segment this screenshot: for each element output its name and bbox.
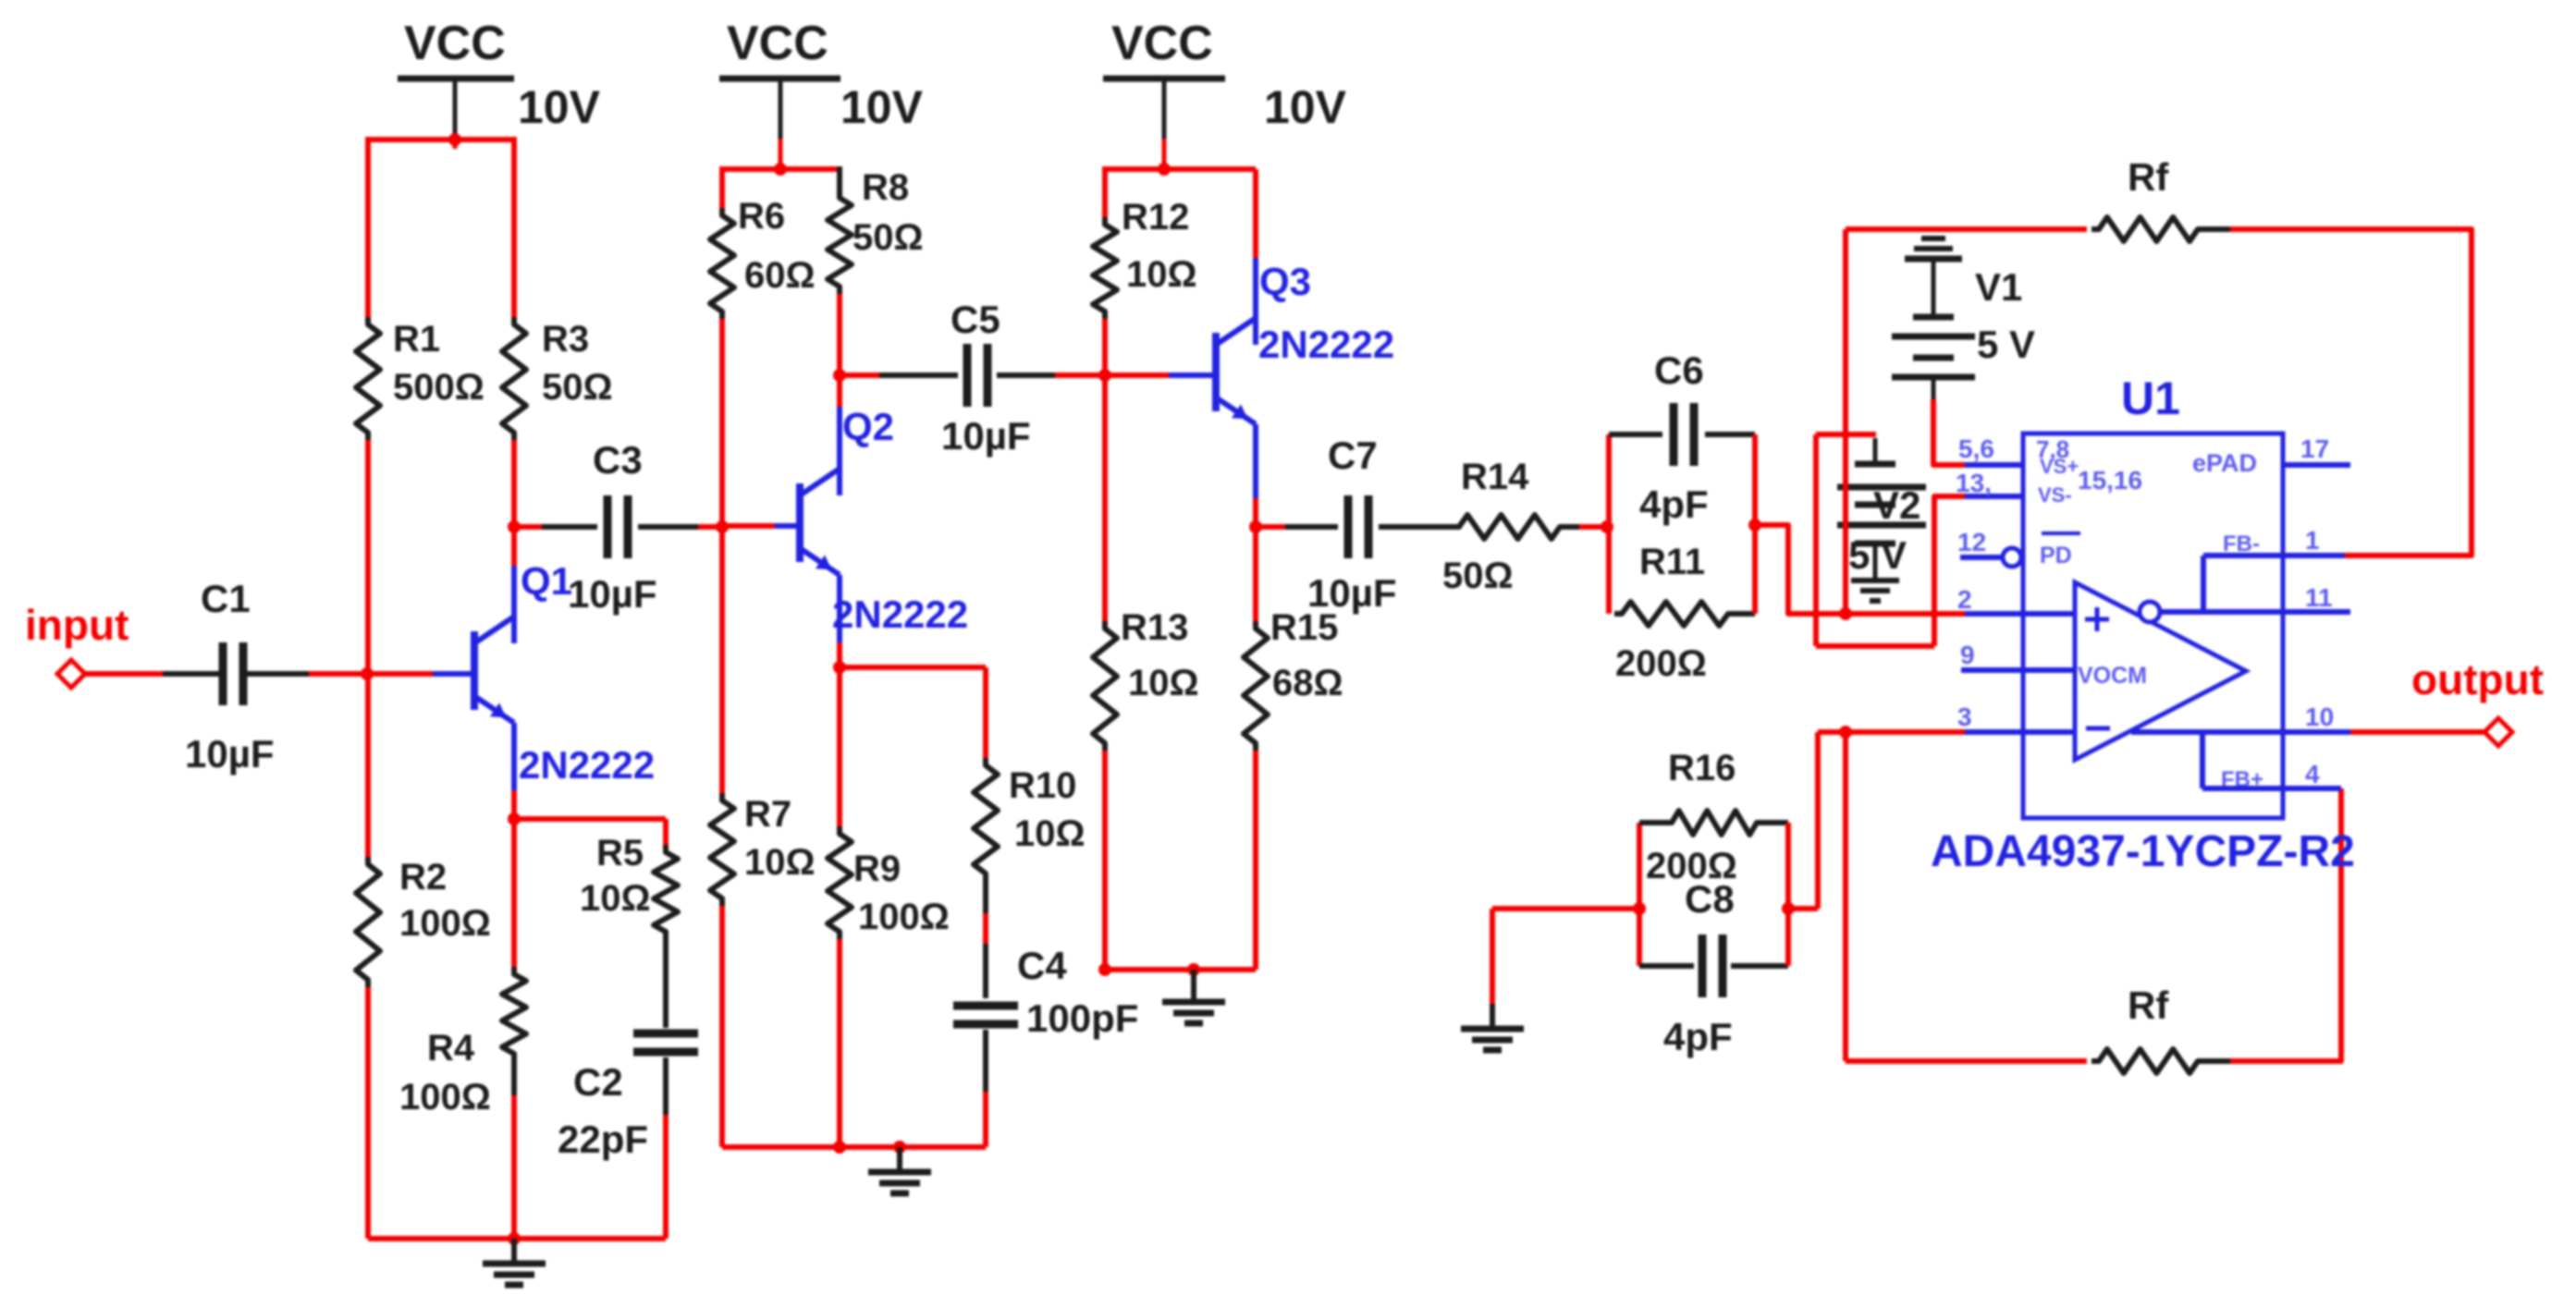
svg-text:R13: R13 <box>1121 607 1188 648</box>
wire R5 top lead <box>663 819 669 845</box>
svg-text:10µF: 10µF <box>941 414 1031 458</box>
svg-text:R2: R2 <box>399 857 447 898</box>
ground stage1 <box>483 1239 546 1285</box>
wire R14 output lead <box>1579 524 1609 530</box>
wire block output jog <box>1755 525 1846 614</box>
svg-text:2N2222: 2N2222 <box>832 592 968 636</box>
capacitor C3 <box>514 495 698 558</box>
wire U1 pin 11 output bubble <box>2160 609 2350 615</box>
wire V1 to pin 5,6 <box>1933 399 1965 465</box>
svg-text:R9: R9 <box>853 849 901 889</box>
wire R5 to C2 lead <box>663 939 669 1028</box>
svg-text:C2: C2 <box>573 1060 623 1104</box>
svg-text:input: input <box>25 601 129 649</box>
node block output junction <box>1748 519 1761 531</box>
svg-text:100pF: 100pF <box>1026 996 1138 1040</box>
transistor Q2 base bar <box>796 483 803 562</box>
transistor Q1 base bar <box>471 631 478 710</box>
ground stage2 <box>868 1147 931 1193</box>
svg-text:10Ω: 10Ω <box>1014 813 1086 854</box>
wire U1 pin 17 ePAD <box>2283 462 2350 468</box>
capacitor C1 <box>163 642 309 705</box>
wire block to pin3 vertical <box>1788 906 1818 911</box>
wire Rf bottom rail left <box>1846 1058 2087 1064</box>
node pin3 junction <box>1839 726 1852 739</box>
transistor Q3 emitter arrow <box>1232 404 1248 419</box>
node R13 bottom junction <box>1098 963 1111 976</box>
ground stage3 <box>1162 970 1225 1023</box>
wire C2 bottom lead <box>663 1057 669 1115</box>
wire R1 bottom lead <box>365 440 371 674</box>
transistor Q3 emitter diagonal <box>1216 397 1256 424</box>
svg-text:100Ω: 100Ω <box>399 1077 491 1118</box>
node stage3 ground junction <box>1187 963 1200 976</box>
label U1 VS+ pins garble <box>2036 435 2079 478</box>
wire V2 box right to pin 13 <box>1934 496 1965 646</box>
svg-text:4pF: 4pF <box>1663 1015 1733 1058</box>
wire Rf top to pin1 <box>2230 229 2472 556</box>
transistor Q2 emitter arrow <box>816 555 832 569</box>
wire R1 top lead <box>365 137 371 317</box>
resistor R11 <box>1614 602 1755 626</box>
svg-text:68Ω: 68Ω <box>1272 663 1343 703</box>
svg-text:R11: R11 <box>1639 542 1705 582</box>
wire U1 pin 1 FB- <box>2203 556 2345 614</box>
power VCC1 symbol <box>398 79 514 149</box>
transistor Q1 emitter diagonal <box>474 696 514 723</box>
wire emitter to R10 <box>840 665 986 670</box>
wire R6 bottom lead <box>719 319 725 527</box>
wire Q3 base <box>1105 373 1169 378</box>
wire R12 top lead <box>1102 166 1108 217</box>
svg-text:1: 1 <box>2305 526 2320 555</box>
wire C6R11 right rail <box>1752 434 1758 614</box>
wire R6 top lead <box>719 166 725 208</box>
resistor R12 <box>1093 217 1117 319</box>
wire R2 top lead <box>365 674 371 857</box>
wire R12 bottom lead <box>1102 319 1108 375</box>
svg-text:10: 10 <box>2305 702 2334 731</box>
svg-text:R14: R14 <box>1461 457 1529 497</box>
wire V2 box bottom <box>1816 643 1934 649</box>
resistor R16 <box>1639 811 1788 835</box>
wire U1 pin 12 with bubble <box>1960 548 2021 567</box>
wire Rf top rail <box>1846 226 2087 232</box>
svg-text:2N2222: 2N2222 <box>1258 323 1394 366</box>
wire ground to block <box>1492 906 1639 911</box>
resistor R15 <box>1244 621 1268 751</box>
wire R15 bottom lead <box>1253 751 1258 970</box>
capacitor C8 <box>1639 934 1788 997</box>
wire R9 top lead <box>837 667 842 826</box>
resistor R4 <box>502 967 526 1061</box>
resistor R3 <box>502 317 526 440</box>
svg-text:100Ω: 100Ω <box>858 897 950 937</box>
resistor R6 <box>710 208 734 319</box>
wire R9 bottom lead <box>837 939 842 1147</box>
transistor Q2 collector diagonal <box>800 469 840 495</box>
svg-text:5 V: 5 V <box>1848 533 1907 577</box>
svg-text:22pF: 22pF <box>558 1118 648 1161</box>
node stage1 ground junction <box>508 1232 521 1245</box>
wire U1 pin 5,6 <box>1965 462 2023 468</box>
transistor Q1 collector diagonal <box>474 617 514 643</box>
svg-text:C3: C3 <box>593 438 643 482</box>
wire U1 pin 13 <box>1965 494 2023 499</box>
svg-text:50Ω: 50Ω <box>1442 556 1514 596</box>
capacitor C6 <box>1609 403 1755 466</box>
node pin2 junction <box>1839 607 1852 620</box>
capacitor C5 <box>840 344 1055 407</box>
wire C6R11 left rail <box>1606 434 1612 614</box>
svg-text:10V: 10V <box>1264 81 1347 133</box>
voltage source V2 <box>1837 438 1926 578</box>
wire R7 bottom lead <box>719 906 725 1147</box>
node R14 block junction <box>1601 520 1613 533</box>
resistor R13 <box>1093 621 1117 751</box>
wire Rf bottom to pin4 <box>2230 788 2341 1061</box>
svg-text:ePAD: ePAD <box>2192 449 2257 477</box>
wire U1 pin 3 inside <box>1965 729 2075 735</box>
svg-text:Q3: Q3 <box>1259 260 1311 303</box>
resistor R9 <box>828 826 852 939</box>
wire R3 bottom lead <box>511 440 517 527</box>
svg-text:C4: C4 <box>1017 944 1067 987</box>
wire C3 to Q2 base junction <box>698 524 722 530</box>
svg-text:R8: R8 <box>862 167 909 208</box>
svg-text:R12: R12 <box>1122 197 1189 238</box>
node Q2 base junction <box>716 520 729 533</box>
svg-text:4pF: 4pF <box>1639 482 1709 526</box>
wire Q2 emitter lead <box>837 575 842 642</box>
label U1 VS- pins garble <box>2038 466 2142 507</box>
wire Q2 base <box>722 523 775 529</box>
wire output lead <box>2350 729 2485 735</box>
svg-text:C1: C1 <box>201 577 251 620</box>
wire stage3 top rail <box>1105 166 1256 172</box>
svg-text:5 V: 5 V <box>1977 323 2035 366</box>
wire input lead <box>85 671 163 677</box>
wire U1 pin 4 FB+ <box>2202 732 2341 788</box>
svg-text:VS+: VS+ <box>2040 455 2079 478</box>
wire R4 top lead <box>511 819 517 967</box>
svg-text:10µF: 10µF <box>1307 571 1397 615</box>
wire stage2 bottom rail <box>722 1144 986 1150</box>
wire emitter to R5 <box>514 816 666 822</box>
wire Q1 base <box>367 671 433 677</box>
svg-text:C8: C8 <box>1685 877 1735 921</box>
svg-text:10Ω: 10Ω <box>1128 663 1199 703</box>
node Q1 collector junction <box>508 520 521 533</box>
wire R3 top lead <box>511 137 517 317</box>
svg-text:10V: 10V <box>840 81 924 133</box>
svg-text:R7: R7 <box>744 794 791 835</box>
svg-text:V2: V2 <box>1873 483 1920 527</box>
svg-text:3: 3 <box>1957 702 1972 731</box>
wire pin3 net vertical <box>1815 732 1821 909</box>
svg-text:10Ω: 10Ω <box>580 878 651 919</box>
capacitor C7 <box>1256 495 1424 558</box>
node Q1 emitter junction <box>508 812 521 825</box>
wire R7 top lead <box>719 527 725 793</box>
svg-text:15,16: 15,16 <box>2078 466 2142 495</box>
resistor R7 <box>710 793 734 906</box>
svg-text:R4: R4 <box>427 1028 475 1069</box>
svg-text:10µF: 10µF <box>568 572 657 616</box>
svg-text:11: 11 <box>2305 583 2333 612</box>
wire R13 top lead <box>1102 375 1108 621</box>
resistor R10 <box>974 758 998 881</box>
wire pin3 to Rf bottom <box>1843 732 1848 1061</box>
resistor R5 <box>654 845 678 939</box>
svg-text:60Ω: 60Ω <box>744 255 816 296</box>
wire R16C8 ground lead <box>1490 909 1495 1004</box>
wire R8 top lead <box>837 166 842 190</box>
wire summing node vertical <box>1843 229 1848 614</box>
wire R16C8 right rail <box>1785 823 1791 966</box>
svg-text:10Ω: 10Ω <box>1126 254 1197 295</box>
transistor Q3 base bar <box>1212 333 1220 411</box>
svg-text:FB-: FB- <box>2223 531 2260 556</box>
svg-text:2N2222: 2N2222 <box>519 743 655 787</box>
wire U1 pin 2 inside <box>1965 611 2075 617</box>
svg-text:Q2: Q2 <box>842 405 894 448</box>
wire R10 top lead <box>983 667 988 758</box>
svg-text:10µF: 10µF <box>185 732 275 776</box>
wire V2 box top <box>1816 432 1876 437</box>
svg-text:R3: R3 <box>542 319 589 360</box>
ground V2 <box>1851 580 1899 601</box>
wire U1 pin 9 VOCM <box>1961 667 2075 673</box>
svg-text:Rf: Rf <box>2128 983 2169 1027</box>
node R16C8 right junction <box>1782 902 1795 915</box>
capacitor C2 <box>633 1030 698 1038</box>
node stage2 ground junction <box>893 1141 906 1154</box>
transistor Q1 emitter arrow <box>490 702 507 717</box>
resistor R2 <box>356 857 380 987</box>
svg-text:ADA4937-1YCPZ-R2: ADA4937-1YCPZ-R2 <box>1931 827 2355 876</box>
wire Q1 collector lead <box>511 566 517 643</box>
wire pin3 lead <box>1818 729 1965 735</box>
wire R10 to C4 <box>983 881 988 913</box>
resistor R14 <box>1424 515 1579 539</box>
op-amp U1 body <box>2023 434 2283 818</box>
svg-text:4: 4 <box>2305 760 2320 788</box>
svg-text:13,: 13, <box>1956 469 1992 497</box>
ground R16C8 <box>1461 1004 1524 1050</box>
wire R15 top lead <box>1253 527 1258 621</box>
svg-text:V1: V1 <box>1975 265 2022 309</box>
node R16C8 left junction <box>1633 902 1646 915</box>
svg-text:2: 2 <box>1957 585 1972 614</box>
resistor R1 <box>356 317 380 440</box>
svg-text:VCC: VCC <box>727 17 828 70</box>
port output terminal <box>2484 718 2512 746</box>
wire stage1 top rail <box>368 137 514 142</box>
wire stage2 top rail <box>722 166 840 172</box>
wire C5 to Q3 base junction <box>1055 373 1105 378</box>
svg-text:9: 9 <box>1960 641 1975 669</box>
node VCC2 junction <box>774 163 787 176</box>
wire R4 bottom lead <box>511 1061 517 1095</box>
node Q3 base junction <box>1098 369 1111 382</box>
node input/base junction <box>361 667 374 680</box>
wire C4 bottom lead <box>983 1030 988 1092</box>
svg-text:200Ω: 200Ω <box>1615 643 1707 684</box>
node Q2 emitter junction <box>833 661 846 674</box>
svg-text:C6: C6 <box>1654 348 1704 392</box>
resistor Rf bottom <box>2091 1049 2230 1073</box>
wire Q1 emitter lead <box>511 723 517 790</box>
svg-text:17: 17 <box>2300 434 2329 463</box>
svg-text:VCC: VCC <box>1111 17 1213 70</box>
svg-text:R16: R16 <box>1668 748 1736 788</box>
svg-text:R6: R6 <box>738 196 785 237</box>
power VCC2 symbol <box>719 79 840 169</box>
wire R2 bottom lead <box>365 987 371 1239</box>
wire V2 box left <box>1813 434 1819 646</box>
wire C1 to base junction <box>309 671 367 677</box>
wire Q2 collector lead <box>837 407 842 495</box>
svg-text:output: output <box>2411 655 2544 703</box>
svg-text:Q1: Q1 <box>521 559 572 603</box>
resistor R8 <box>828 190 852 294</box>
svg-text:VS-: VS- <box>2038 483 2072 507</box>
svg-text:R1: R1 <box>393 319 440 360</box>
svg-text:12: 12 <box>1957 528 1986 556</box>
transistor Q3 collector diagonal <box>1216 318 1256 345</box>
voltage source V1 <box>1892 238 1975 399</box>
svg-text:10V: 10V <box>518 81 601 133</box>
svg-text:R5: R5 <box>596 833 644 873</box>
svg-text:PD: PD <box>2040 543 2072 568</box>
svg-text:VOCM: VOCM <box>2078 663 2147 689</box>
port input terminal <box>57 660 85 688</box>
svg-text:C7: C7 <box>1328 434 1378 477</box>
svg-text:VCC: VCC <box>404 17 506 70</box>
wire stage1 bottom rail <box>368 1236 666 1241</box>
svg-text:5,6: 5,6 <box>1958 434 1994 463</box>
svg-text:50Ω: 50Ω <box>542 367 613 408</box>
power VCC3 symbol <box>1103 79 1225 169</box>
node Q3 emitter junction <box>1249 520 1262 533</box>
label U1 PD <box>2040 533 2080 568</box>
svg-text:10Ω: 10Ω <box>744 842 816 883</box>
wire pin2 lead <box>1846 611 1965 617</box>
svg-text:100Ω: 100Ω <box>399 903 491 944</box>
node R9 bottom junction <box>833 1141 846 1154</box>
svg-text:C5: C5 <box>951 298 1000 341</box>
wire Q3 emitter lead <box>1253 424 1258 498</box>
resistor Rf top <box>2091 217 2230 241</box>
svg-text:Rf: Rf <box>2128 155 2169 199</box>
svg-text:50Ω: 50Ω <box>853 217 924 258</box>
wire R8 bottom lead <box>837 294 842 375</box>
svg-text:500Ω: 500Ω <box>393 367 485 408</box>
wire Q3 collector lead <box>1253 169 1258 258</box>
svg-text:U1: U1 <box>2121 373 2180 424</box>
wire R16C8 left rail <box>1637 823 1642 966</box>
node VCC1 junction <box>448 133 461 146</box>
node Q2 collector junction <box>833 369 846 382</box>
node VCC3 junction <box>1158 163 1171 176</box>
svg-text:R10: R10 <box>1009 765 1076 806</box>
wire U1 pin 10 output <box>2131 729 2350 735</box>
transistor Q2 emitter diagonal <box>800 548 840 575</box>
wire stage3 bottom rail <box>1105 967 1256 972</box>
capacitor C4 <box>953 1002 1018 1010</box>
wire R13 bottom lead <box>1102 751 1108 970</box>
